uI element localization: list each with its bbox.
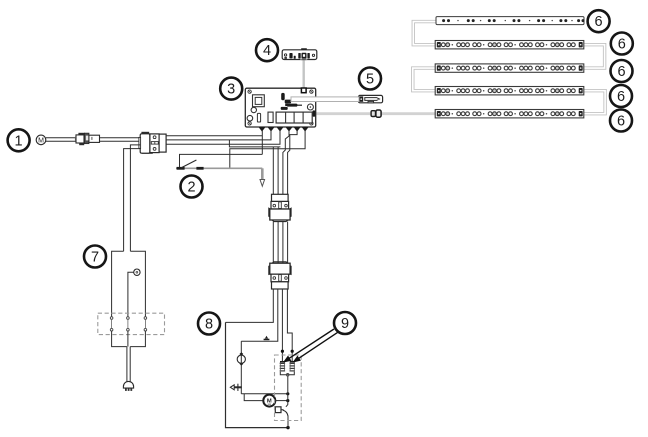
wire: w3 to left coil xyxy=(281,289,283,362)
relay on PCB xyxy=(253,95,265,107)
callout 1 xyxy=(8,129,30,151)
callout 7 xyxy=(84,246,106,268)
wire: item7 left conductor xyxy=(112,251,124,317)
connector pair (upper, on 4-wire cable) xyxy=(268,194,291,221)
callout 2 xyxy=(181,176,203,198)
PCB edge component (gray wire tap) xyxy=(312,110,315,116)
callout 6e xyxy=(610,110,632,132)
inline fuse (item 8) xyxy=(237,352,245,366)
LED strip 6 (row 5) xyxy=(435,110,584,118)
PCB circle component B xyxy=(247,115,253,121)
control box PCB (item 3) xyxy=(245,88,315,127)
dashed connector block (item 7) xyxy=(98,313,165,334)
wire: harness loop down and across bottom xyxy=(226,322,289,427)
svg-text:M: M xyxy=(38,138,44,145)
LED strip 6 (row 4) xyxy=(435,87,584,95)
switch lever (item 2) xyxy=(176,160,262,170)
wire: strip3 to strip4 link xyxy=(413,68,436,91)
wire: staircase jog xyxy=(229,140,280,147)
PCB buzzer xyxy=(307,104,313,110)
svg-text:7: 7 xyxy=(91,250,99,266)
svg-text:1: 1 xyxy=(15,133,23,149)
LED strip 6 (row 2) xyxy=(435,41,584,49)
callout 6c xyxy=(611,60,633,82)
svg-text:6: 6 xyxy=(617,114,625,130)
wire: motor lead cable (right) xyxy=(99,138,140,142)
clip symbol on fuse branch wire xyxy=(264,336,270,341)
wire: pin5 into bundle xyxy=(288,131,298,195)
svg-text:2: 2 xyxy=(187,180,195,196)
svg-text:9: 9 xyxy=(341,316,349,332)
remote switch panel (item 4) xyxy=(282,48,317,60)
connector pair (lower, mirrored) xyxy=(268,262,291,289)
probe terminal below switch wire xyxy=(260,168,265,186)
item9 arrow 1 xyxy=(283,329,334,363)
PCB component cluster xyxy=(281,100,302,110)
sensor circle component (item 7) xyxy=(128,269,140,317)
wire: motor to node xyxy=(275,400,288,402)
wire: fused power lead xyxy=(291,97,359,102)
svg-text:6: 6 xyxy=(617,89,625,105)
PCB circle component A xyxy=(251,107,256,112)
wire: pin4 into bundle xyxy=(283,131,289,195)
callout 8 xyxy=(198,313,220,335)
wire: remote panel to control box xyxy=(303,60,305,89)
wire: pin1 to junction block xyxy=(166,135,262,137)
wire: bundle line A xyxy=(272,147,274,194)
wire: motor tap xyxy=(244,394,263,401)
PCB connector row xyxy=(257,112,312,123)
wire: w4 to right coil xyxy=(287,289,292,362)
wire: w1 to harness loop xyxy=(226,289,274,322)
wire: pin3 to junction block xyxy=(166,131,280,145)
node: right coil feed xyxy=(291,350,294,353)
wire: pin6 to switch xyxy=(230,131,305,169)
node: y394 xyxy=(286,392,289,395)
connector: inline plug on strip5 return wire xyxy=(371,110,381,117)
callout 5 xyxy=(359,68,381,90)
node: y400.6 xyxy=(286,399,289,402)
wire: strip2 to strip3 link xyxy=(584,45,605,68)
node: left coil feed xyxy=(281,350,284,353)
bottom switch actuator xyxy=(275,407,288,416)
wire: pin2 to junction block xyxy=(166,131,271,140)
wire: fuse to spade junction xyxy=(240,365,242,394)
svg-text:M: M xyxy=(267,399,272,405)
callout 1 motor lead: M symbol xyxy=(36,135,46,145)
wire: switch to bottom node xyxy=(287,416,289,428)
wire: item7 stem cable xyxy=(127,347,130,383)
motor M (item 8) xyxy=(263,395,275,407)
spade terminal (left pointing) xyxy=(230,384,242,391)
svg-text:6: 6 xyxy=(618,37,626,53)
item7 contact pins xyxy=(110,317,146,331)
wire: bundle line B xyxy=(277,147,279,194)
wire: switch feed line xyxy=(180,154,263,167)
svg-text:6: 6 xyxy=(617,64,625,80)
wire: 4-wire cable between connectors xyxy=(273,222,287,264)
coil connector left (item 9) xyxy=(280,361,285,371)
wire: fuse branch vertical xyxy=(240,341,242,352)
wire: item7 right conductor xyxy=(130,251,145,317)
wire: pin1 down-lead xyxy=(261,131,263,155)
svg-text:3: 3 xyxy=(227,82,235,98)
callout 3 xyxy=(220,78,242,100)
connector: motor lead plug xyxy=(75,133,100,145)
callout 9 xyxy=(334,312,356,334)
node: bottom wire end xyxy=(286,426,289,429)
item9 arrow 2 xyxy=(292,332,338,363)
wire: item7 leads merge to stem xyxy=(112,331,146,347)
bulb terminal at stem end xyxy=(123,381,133,391)
svg-text:8: 8 xyxy=(205,317,213,333)
wire: w2 to fuse branch xyxy=(241,289,277,341)
wire: horizontal feed to coil node xyxy=(241,393,287,395)
junction connector block xyxy=(139,132,166,154)
wire: strip4 to strip5 link xyxy=(584,91,606,114)
wire: motor lead cable (left) xyxy=(46,138,76,142)
dashed box (item 9 connectors) xyxy=(275,355,302,421)
coil connector right (item 9) xyxy=(290,361,295,371)
LED strip 6 (row 1) xyxy=(436,17,585,25)
svg-text:4: 4 xyxy=(263,43,271,59)
PCB capacitor (black pill) xyxy=(281,93,285,100)
svg-text:5: 5 xyxy=(366,72,374,88)
fuse holder (item 5) xyxy=(358,95,382,102)
coil bracket xyxy=(280,372,294,377)
callout 6a xyxy=(588,10,610,32)
callout 4 xyxy=(256,39,278,61)
wire: strip5 return to control box xyxy=(316,112,436,115)
control box input socket (top edge) xyxy=(301,88,306,93)
control box corner screws xyxy=(248,90,313,125)
svg-text:6: 6 xyxy=(595,14,603,30)
LED strip 6 (row 3) xyxy=(435,64,584,72)
wire: node vertical to switch contact xyxy=(286,376,288,407)
callout 6d xyxy=(610,85,632,107)
wire: accessory cable down from junction block xyxy=(124,145,141,251)
control box output pins xyxy=(259,127,309,132)
wire: strip1 to strip2 link xyxy=(413,22,436,45)
callout 6b xyxy=(611,33,633,55)
